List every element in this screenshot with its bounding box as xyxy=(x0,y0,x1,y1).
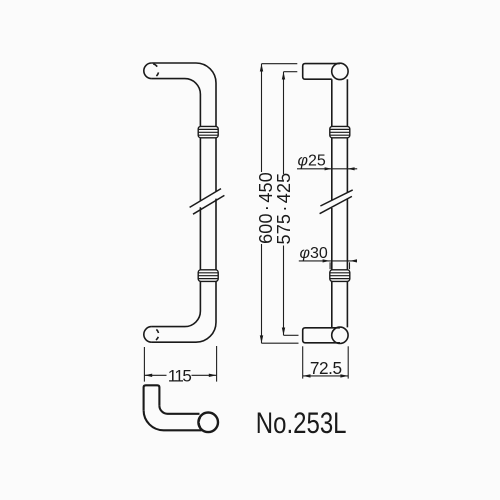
front view tube left edge xyxy=(331,79,333,328)
dimension phi30 arrowheads xyxy=(323,259,330,262)
side view upper decorative ring xyxy=(198,126,218,137)
svg-text:φ25: φ25 xyxy=(298,152,326,169)
side view bottom end cap xyxy=(144,327,152,343)
dimension 600-450 extension lines xyxy=(262,63,298,65)
side view top cap seam marks xyxy=(153,64,158,76)
dimension 600-450 arrowheads xyxy=(260,64,263,72)
dimension 575-425 extension lines xyxy=(284,71,298,73)
front view lower decorative ring xyxy=(330,270,350,282)
front view top arm xyxy=(303,64,340,80)
dimension 575-425 arrowheads xyxy=(282,72,285,80)
side view break lines xyxy=(190,189,221,208)
dimension 72.5 arrowheads xyxy=(303,374,311,377)
side view handle outline (inner contour) xyxy=(152,79,201,327)
svg-text:600·450: 600·450 xyxy=(256,172,276,244)
front view bottom cap circle xyxy=(332,327,348,343)
front view top cap circle xyxy=(332,63,348,79)
bottom view end cross-section circle xyxy=(198,413,218,433)
svg-text:115: 115 xyxy=(168,366,192,385)
dimension 72.5 line xyxy=(303,375,349,377)
dimension phi30 line xyxy=(299,260,357,262)
dimension phi30 extension ticks xyxy=(329,262,331,269)
front view upper decorative ring xyxy=(330,126,350,137)
front view tube right edge xyxy=(346,79,348,327)
dimension 72.5 extension lines xyxy=(302,346,304,378)
side view handle outline (outer contour) xyxy=(152,63,216,342)
dimension 600-450 vertical line xyxy=(261,64,263,344)
side view top end cap xyxy=(144,63,152,79)
dimension phi25 line xyxy=(297,168,357,170)
svg-text:No.253L: No.253L xyxy=(256,405,347,439)
side view lower decorative ring xyxy=(198,270,218,282)
dimension 115 line xyxy=(144,374,166,376)
dimension 115 extension lines xyxy=(143,347,145,382)
front view bottom arm xyxy=(303,328,340,343)
bottom view seam marks xyxy=(199,417,201,427)
dimension 115 arrowheads xyxy=(144,374,152,377)
svg-text:72.5: 72.5 xyxy=(310,358,342,378)
front view break lines xyxy=(320,190,352,206)
svg-text:575·425: 575·425 xyxy=(274,173,294,245)
dimension phi25 arrowheads xyxy=(325,167,332,170)
bottom view elbow outline xyxy=(144,385,160,410)
svg-text:φ30: φ30 xyxy=(300,245,328,262)
dimension 575-425 vertical line xyxy=(283,72,285,336)
side view bottom cap seam marks xyxy=(156,329,159,340)
